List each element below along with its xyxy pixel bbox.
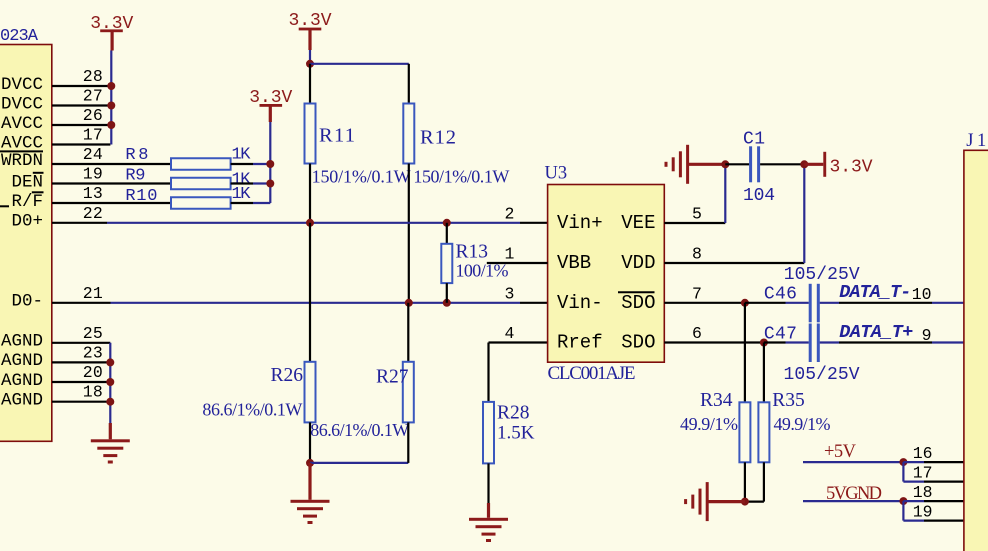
junction at pin 28 bbox=[107, 82, 115, 90]
resistor R27 body bbox=[403, 362, 414, 423]
svg-text:D0+: D0+ bbox=[11, 212, 43, 232]
partial glyph before R/F (cut off at sheet edge) bbox=[0, 205, 9, 207]
wire: J1 pin 19 bbox=[903, 519, 924, 521]
svg-text:17: 17 bbox=[83, 126, 103, 145]
resistor R26 body bbox=[305, 362, 316, 423]
svg-text:17: 17 bbox=[913, 463, 933, 482]
svg-text:86.6/1%/0.1W: 86.6/1%/0.1W bbox=[310, 420, 409, 440]
junction pin7/R34 bbox=[741, 299, 749, 307]
svg-text:9: 9 bbox=[922, 326, 932, 345]
svg-text:R27: R27 bbox=[376, 367, 409, 388]
resistor R13 bottom lead bbox=[446, 283, 448, 303]
svg-text:3.3V: 3.3V bbox=[830, 157, 873, 177]
ground symbol below R28 bbox=[487, 503, 490, 518]
svg-text:49.9/1%: 49.9/1% bbox=[680, 414, 738, 434]
svg-text:R35: R35 bbox=[772, 390, 805, 411]
resistor R13 top lead bbox=[446, 223, 448, 244]
pin 28 of U2 bbox=[52, 85, 110, 87]
svg-text:VBB: VBB bbox=[557, 252, 591, 274]
svg-text:J1: J1 bbox=[966, 131, 986, 151]
svg-text:18: 18 bbox=[913, 483, 933, 502]
junction R8/3.3V bbox=[266, 160, 274, 168]
R/F overline (over F) bbox=[32, 191, 44, 193]
svg-text:SDO: SDO bbox=[621, 332, 655, 354]
junction AGND pin 18 bbox=[106, 398, 114, 406]
resistor R28 top lead bbox=[487, 343, 489, 402]
wire: U3 VEE pin 5 to decoupling node bbox=[664, 222, 725, 224]
svg-text:WRDN: WRDN bbox=[1, 151, 43, 171]
resistor R28 body bbox=[483, 402, 494, 464]
resistor R11 bottom lead to D0+ line bbox=[309, 164, 311, 223]
svg-text:19: 19 bbox=[913, 502, 933, 521]
svg-text:21: 21 bbox=[83, 284, 103, 303]
svg-text:DEN: DEN bbox=[11, 172, 43, 192]
svg-text:Rref: Rref bbox=[557, 332, 603, 354]
svg-text:1K: 1K bbox=[232, 146, 252, 165]
wire: U3 SDO- pin 7 net to C46 bbox=[664, 302, 745, 304]
svg-text:86.6/1%/0.1W: 86.6/1%/0.1W bbox=[202, 399, 302, 419]
svg-text:Vin-: Vin- bbox=[557, 292, 603, 314]
resistor R10 body bbox=[171, 197, 231, 209]
svg-text:1.5K: 1.5K bbox=[497, 423, 535, 444]
pin 27 of U2 bbox=[52, 104, 110, 106]
wire: C46 to J1 pin 10, net DATA_T- bbox=[820, 302, 839, 304]
junction D0+/R11 bbox=[306, 219, 314, 227]
IC U2 (left device ...023A) body bbox=[0, 45, 52, 442]
resistor R34 top lead bbox=[744, 303, 746, 403]
wire: R27 bottom across to R26 node bbox=[310, 462, 408, 464]
svg-text:18: 18 bbox=[83, 383, 103, 402]
resistor R9 body bbox=[171, 178, 231, 190]
resistor R27 top lead from Vin- junction bbox=[407, 303, 409, 362]
capacitor C46 plates bbox=[809, 284, 812, 323]
svg-text:2: 2 bbox=[504, 205, 514, 224]
junction C1 right node bbox=[800, 160, 808, 168]
resistor R34 body bbox=[739, 402, 750, 462]
svg-text:DATA_T-: DATA_T- bbox=[839, 282, 911, 303]
ground symbol left of C1 (rotated) bbox=[686, 145, 689, 184]
power symbol 3.3V (right of C1, rotated) bbox=[804, 163, 823, 166]
svg-text:3: 3 bbox=[504, 284, 514, 303]
svg-text:AGND: AGND bbox=[1, 371, 43, 391]
resistor R27 bottom lead bbox=[407, 422, 409, 463]
svg-text:AGND: AGND bbox=[1, 391, 43, 411]
wire: C1 right plate to 3.3V node bbox=[760, 163, 804, 165]
svg-text:DVCC: DVCC bbox=[1, 75, 43, 95]
junction AGND pin 23 bbox=[106, 358, 114, 366]
svg-text:24: 24 bbox=[83, 145, 103, 164]
junction Vin-/R12,R27 bbox=[405, 299, 413, 307]
wire: AGND bus down to ground bbox=[109, 343, 111, 423]
wire: +5V net bbox=[803, 461, 903, 463]
svg-text:R12: R12 bbox=[420, 127, 456, 149]
resistor R34 bottom lead bbox=[744, 462, 746, 501]
junction C1 left node bbox=[721, 160, 729, 168]
svg-text:R9: R9 bbox=[125, 167, 145, 186]
capacitor C1 plates bbox=[749, 146, 752, 182]
op-amp/driver U3 body (CLC001AJE) bbox=[548, 185, 665, 363]
connector J1 body bbox=[964, 150, 988, 551]
svg-text:C1: C1 bbox=[743, 129, 765, 149]
svg-text:C47: C47 bbox=[764, 324, 797, 344]
junction at pin 26 bbox=[107, 121, 115, 129]
resistor R13 body bbox=[441, 244, 452, 283]
capacitor C47 plates bbox=[809, 324, 812, 363]
svg-text:4: 4 bbox=[504, 324, 514, 343]
svg-text:R10: R10 bbox=[125, 187, 157, 206]
svg-text:DATA_T+: DATA_T+ bbox=[839, 322, 913, 343]
wire: net D0+ from U2 pin 22 to U3 Vin+ bbox=[52, 222, 107, 224]
resistor R11 body bbox=[305, 104, 316, 164]
svg-text:AGND: AGND bbox=[1, 351, 43, 371]
resistor R12 body bbox=[403, 104, 414, 164]
svg-text:27: 27 bbox=[83, 87, 103, 106]
pin 17 of U2 bbox=[52, 143, 110, 145]
svg-text:26: 26 bbox=[83, 106, 103, 125]
resistor R12 bottom lead crossing D0+ to Vin- line bbox=[408, 164, 410, 303]
svg-text:+5V: +5V bbox=[824, 442, 857, 462]
junction AGND pin 20 bbox=[106, 378, 114, 386]
junction +5V/J1 pin16 bbox=[899, 458, 907, 466]
svg-text:R11: R11 bbox=[319, 125, 355, 147]
pin 19 of U2 bbox=[52, 182, 171, 184]
junction at pin 27 bbox=[107, 102, 115, 110]
resistor R12 top lead bbox=[408, 64, 410, 104]
resistor R8 body bbox=[171, 158, 231, 170]
wire: node to C1 left plate bbox=[725, 163, 749, 165]
svg-text:23: 23 bbox=[83, 343, 103, 362]
DEN overline (over N) bbox=[33, 172, 44, 174]
svg-text:19: 19 bbox=[83, 165, 103, 184]
svg-text:DVCC: DVCC bbox=[1, 94, 43, 114]
svg-text:28: 28 bbox=[83, 67, 103, 86]
pin 24 of U2 bbox=[52, 163, 171, 165]
resistor R35 top lead bbox=[763, 343, 765, 403]
junction pin6/R35 bbox=[760, 339, 768, 347]
ground symbol below R26/R27 bbox=[308, 463, 311, 500]
svg-text:R28: R28 bbox=[497, 402, 530, 423]
wire: +5V down to pin 17 bbox=[902, 462, 904, 482]
wire: 5VGND net bbox=[803, 500, 903, 502]
junction Vin-/R13 bbox=[443, 299, 451, 307]
svg-text:1K: 1K bbox=[232, 185, 252, 204]
resistor R11 top lead bbox=[309, 64, 311, 104]
svg-text:49.9/1%: 49.9/1% bbox=[774, 414, 831, 434]
svg-text:105/25V: 105/25V bbox=[784, 365, 860, 385]
wire: J1 pin 16 bbox=[903, 461, 924, 463]
wire: C47 to J1 pin 9, net DATA_T+ bbox=[820, 341, 839, 343]
wire: R35 bottom to ground node bbox=[745, 501, 764, 503]
svg-text:AVCC: AVCC bbox=[1, 114, 43, 134]
pin 23 of U2 (AGND) bbox=[52, 361, 110, 363]
wire: R10 lead to 3.3V column bbox=[231, 202, 253, 204]
svg-text:R26: R26 bbox=[270, 365, 303, 386]
wire: R9 lead to 3.3V column bbox=[231, 182, 253, 184]
svg-text:5: 5 bbox=[692, 205, 702, 224]
wire: U3 VDD pin 8 to 3.3V node bbox=[664, 262, 804, 264]
wire: U3 SDO pin 6 net to C47 bbox=[664, 341, 764, 343]
wire: 3.3V rail down to pin-17 row bbox=[110, 51, 112, 145]
svg-text:AGND: AGND bbox=[1, 332, 43, 352]
wire: 3.3V down to node A bbox=[309, 50, 311, 64]
svg-text:SDO: SDO bbox=[621, 292, 655, 314]
ground symbol below U2 AGND bbox=[109, 423, 112, 439]
wire: net D0- from U2 pin 21 to U3 Vin- bbox=[52, 302, 111, 304]
svg-text:8: 8 bbox=[692, 245, 702, 264]
svg-text:7: 7 bbox=[692, 284, 702, 303]
svg-text:6: 6 bbox=[692, 324, 702, 343]
svg-text:VEE: VEE bbox=[621, 212, 655, 234]
svg-text:Vin+: Vin+ bbox=[557, 212, 603, 234]
pin 20 of U2 (AGND) bbox=[52, 381, 110, 383]
svg-text:1: 1 bbox=[504, 245, 514, 264]
junction R9/3.3V bbox=[266, 180, 274, 188]
svg-text:13: 13 bbox=[83, 184, 103, 203]
junction 5VGND/J1 pin18 bbox=[899, 497, 907, 505]
svg-text:22: 22 bbox=[83, 204, 103, 223]
svg-text:16: 16 bbox=[913, 444, 933, 463]
overline on SDO (pin 7) bbox=[618, 291, 655, 293]
pin 13 of U2 bbox=[52, 202, 171, 204]
svg-text:20: 20 bbox=[83, 363, 103, 382]
svg-text:150/1%/0.1W: 150/1%/0.1W bbox=[413, 167, 509, 187]
resistor R28 bottom lead bbox=[487, 463, 489, 503]
svg-text:CLC001AJE: CLC001AJE bbox=[548, 363, 636, 384]
svg-text:150/1%/0.1W: 150/1%/0.1W bbox=[312, 167, 411, 187]
svg-text:R/F: R/F bbox=[11, 192, 43, 212]
resistor R26 top lead from D0+ junction bbox=[309, 223, 311, 362]
resistor R35 bottom lead bbox=[763, 462, 765, 501]
resistor R35 body bbox=[758, 402, 769, 462]
svg-text:D0-: D0- bbox=[11, 292, 43, 312]
svg-text:U3: U3 bbox=[545, 163, 568, 183]
wire: J1 pin 17 bbox=[903, 481, 924, 483]
WRDN overline bbox=[0, 150, 43, 152]
node A junction (3.3V rail) bbox=[306, 60, 314, 68]
svg-text:VDD: VDD bbox=[621, 252, 655, 274]
junction R34/R35 ground node bbox=[741, 498, 749, 506]
svg-text:R34: R34 bbox=[700, 390, 733, 411]
wire: R8 lead to 3.3V column bbox=[231, 163, 253, 165]
junction D0+/R13 bbox=[443, 219, 451, 227]
wire: U3 Rref pin 4 to R28 bbox=[489, 341, 548, 343]
wire: 3.3V rail for R8/R9/R10 bbox=[269, 122, 271, 203]
svg-text:C46: C46 bbox=[764, 284, 797, 304]
svg-text:R13: R13 bbox=[456, 242, 489, 263]
U3 pin 1 stub (VBB, unconnected) bbox=[487, 262, 548, 264]
wire: node A across to R12 bbox=[310, 63, 409, 65]
svg-text:104: 104 bbox=[743, 186, 775, 206]
wire: J1 pin 18 bbox=[903, 500, 924, 502]
pin 18 of U2 (AGND) bbox=[52, 401, 110, 403]
pin 25 of U2 (AGND) bbox=[52, 342, 110, 344]
svg-text:25: 25 bbox=[83, 324, 103, 343]
wire: 5VGND down to pin 19 bbox=[902, 501, 904, 520]
svg-text:023A: 023A bbox=[0, 27, 39, 46]
pin 26 of U2 bbox=[52, 124, 110, 126]
ground symbol left of R34 (rotated) bbox=[706, 482, 709, 521]
junction R26/R27 bottom node bbox=[306, 459, 314, 467]
svg-text:10: 10 bbox=[912, 285, 932, 304]
resistor R26 bottom lead bbox=[309, 422, 311, 463]
